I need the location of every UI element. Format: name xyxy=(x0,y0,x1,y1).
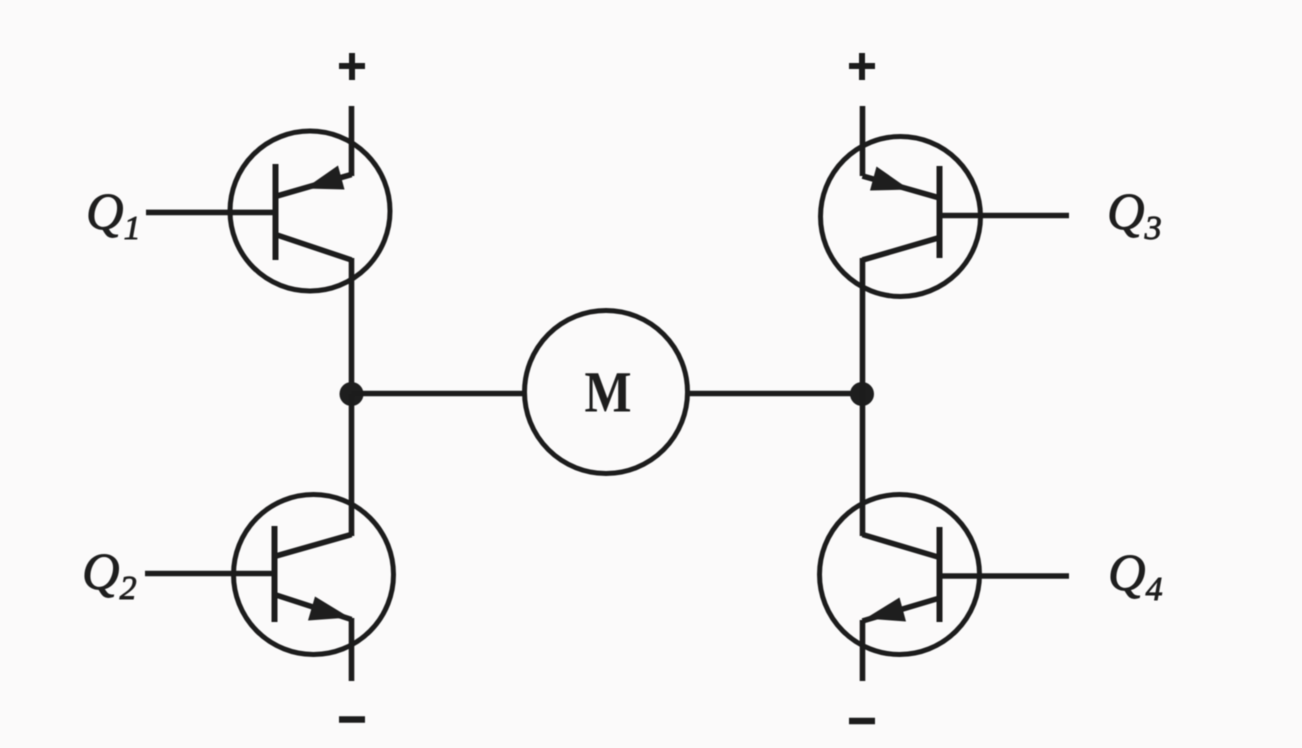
wire Q3 collector down to right node xyxy=(860,258,866,394)
wire Q2 emitter down to - left xyxy=(349,618,355,681)
wire Q3 base lead xyxy=(941,213,1069,219)
node +V left terminal xyxy=(339,53,365,80)
wire Q1 base lead xyxy=(146,210,274,216)
node left junction dot xyxy=(340,382,364,406)
transistor Q3 xyxy=(821,137,981,297)
transistor Q4 xyxy=(820,495,980,655)
wire Q1 collector down to left node xyxy=(349,258,355,394)
wire from + right down to Q3 emitter xyxy=(860,106,866,176)
wire right node down to Q4 collector xyxy=(860,394,866,536)
node +V right terminal xyxy=(849,53,875,80)
wire left node down to Q2 collector xyxy=(349,394,355,536)
wire motor to right node xyxy=(688,391,863,397)
node -V left terminal xyxy=(339,716,365,723)
wire from + left down to Q1 emitter xyxy=(349,106,355,176)
svg-text:M: M xyxy=(585,360,632,425)
motor M xyxy=(525,311,688,474)
wire left node to motor xyxy=(352,391,527,397)
wire Q4 base lead xyxy=(941,573,1069,579)
node -V right terminal xyxy=(849,718,875,725)
node right junction dot xyxy=(850,382,874,406)
transistor Q1 xyxy=(230,131,390,291)
wire Q4 emitter down to - right xyxy=(860,620,866,681)
wire Q2 base lead xyxy=(145,571,273,577)
transistor Q2 xyxy=(234,495,394,655)
